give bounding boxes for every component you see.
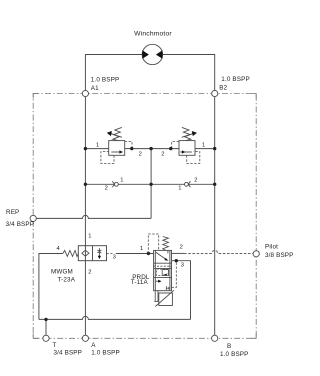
svg-text:1.0 BSPP: 1.0 BSPP xyxy=(91,350,120,357)
svg-text:2: 2 xyxy=(105,185,108,191)
port REP xyxy=(30,215,36,221)
svg-text:Winchmotor: Winchmotor xyxy=(134,30,172,37)
svg-text:3/8 BSPP: 3/8 BSPP xyxy=(265,252,294,259)
junction tank line x T drop xyxy=(44,318,47,321)
wire MWGM port 4 to tank drop xyxy=(39,254,63,320)
PRDL spring xyxy=(163,237,169,251)
wire PRDL port 3 drain to tank xyxy=(172,261,191,320)
MWGM check position (diamond) xyxy=(82,250,89,256)
wire motor left port to A1 xyxy=(85,55,142,94)
svg-text:B: B xyxy=(227,343,231,350)
junction PRDL port 3 xyxy=(175,259,178,262)
PRDL pilot dashed box xyxy=(148,234,158,254)
wire middle vertical (REP gallery) xyxy=(150,149,152,219)
manifold enclosure (dash-dot boundary) xyxy=(33,94,256,339)
wire right vertical B2 to port B xyxy=(214,94,216,339)
svg-text:Pilot: Pilot xyxy=(265,244,278,251)
port Pilot xyxy=(253,251,259,257)
MWGM flow position (restricted arrow) xyxy=(98,248,102,256)
svg-text:3: 3 xyxy=(113,255,116,261)
wire left vertical A1 line xyxy=(84,94,86,261)
svg-text:1.0 BSPP: 1.0 BSPP xyxy=(221,76,250,83)
junction relief row x middle vertical xyxy=(149,147,152,150)
PRDL pilot feedback dashes xyxy=(172,263,177,288)
svg-text:1: 1 xyxy=(88,234,91,240)
PRDL manual override H xyxy=(166,286,169,290)
MWGM port 3 pilot dashes xyxy=(107,253,113,255)
svg-text:T: T xyxy=(53,342,57,349)
svg-text:3/4 BSPP: 3/4 BSPP xyxy=(6,221,35,228)
counterbalance valve MWGM T-23A body xyxy=(78,246,106,261)
junction PRDL port 1 pilot tap xyxy=(147,252,150,255)
svg-text:1: 1 xyxy=(140,246,143,252)
port A1 xyxy=(82,90,88,96)
wire relief row middle segment xyxy=(125,148,179,150)
svg-text:1: 1 xyxy=(120,178,123,184)
junction RV1 pilot tap xyxy=(130,147,133,150)
wire relief row left segment xyxy=(85,148,108,150)
wire T port drop xyxy=(45,319,47,338)
svg-text:1: 1 xyxy=(202,142,205,148)
svg-text:MWGM: MWGM xyxy=(51,268,73,275)
wire tank line (hops over left vertical) xyxy=(39,316,191,319)
pilot line PRDL port 2 to Pilot port (hops over right vertical) xyxy=(184,250,253,253)
PRDL reducing stage inner boxes xyxy=(157,269,169,275)
svg-text:1: 1 xyxy=(178,185,181,191)
port B xyxy=(212,335,218,341)
wire REP line (hops over left vertical) xyxy=(36,215,151,218)
wire MWGM port 3 to PRDL port 1 xyxy=(116,253,154,255)
hydraulic motor M1 (bidirectional) xyxy=(142,44,162,64)
svg-text:REP: REP xyxy=(6,209,19,216)
PRDL solenoid legs xyxy=(154,291,156,302)
junction relief row x right vertical xyxy=(213,147,216,150)
svg-text:2: 2 xyxy=(88,269,91,275)
svg-text:2: 2 xyxy=(161,152,164,158)
wire check valve row xyxy=(85,183,214,185)
wire PRDL port 2 stub xyxy=(172,252,185,254)
junction check row x middle vertical xyxy=(149,183,152,186)
svg-text:1: 1 xyxy=(96,142,99,148)
svg-text:1.0 BSPP: 1.0 BSPP xyxy=(220,351,249,358)
port A xyxy=(82,335,88,341)
MWGM spring (port 4 side) xyxy=(63,250,79,256)
svg-text:2: 2 xyxy=(139,152,142,158)
port T xyxy=(43,335,49,341)
svg-text:B2: B2 xyxy=(219,84,227,91)
svg-text:T-11A: T-11A xyxy=(131,279,149,286)
junction relief row x left vertical xyxy=(84,147,87,150)
svg-text:3: 3 xyxy=(181,263,184,269)
PRDL proportional solenoid box xyxy=(159,293,173,306)
proportional pressure reducing valve PRDL T-11A body xyxy=(154,250,172,290)
relief valve RV2 (right, pilot operated) xyxy=(172,127,200,163)
svg-text:3/4 BSPP: 3/4 BSPP xyxy=(54,350,83,357)
port B2 xyxy=(212,90,218,96)
PRDL lower stage arrow xyxy=(156,280,159,282)
check valve CV1 (left) xyxy=(112,181,118,187)
junction check row x right vertical xyxy=(213,183,216,186)
svg-text:A: A xyxy=(91,342,96,349)
svg-text:T-23A: T-23A xyxy=(58,277,76,284)
svg-text:A1: A1 xyxy=(91,85,99,92)
svg-text:2: 2 xyxy=(180,244,183,250)
junction RV2 pilot tap xyxy=(169,147,172,150)
wire left vertical below MWGM to port A xyxy=(84,261,86,339)
junction check row x left vertical xyxy=(84,183,87,186)
relief valve RV1 (left, pilot operated) xyxy=(101,127,132,163)
wire motor right port to B2 xyxy=(163,55,215,94)
svg-text:2: 2 xyxy=(194,178,197,184)
check valve CV2 (right) xyxy=(185,181,191,187)
wire relief row right segment xyxy=(194,148,215,150)
svg-text:1.0 BSPP: 1.0 BSPP xyxy=(91,77,120,84)
